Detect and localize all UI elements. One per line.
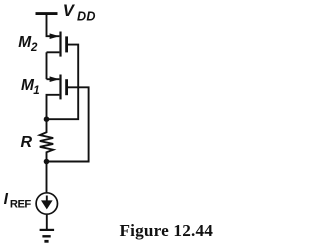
node B junction dot (44, 159, 50, 165)
M1 gate wire to node B (49, 87, 89, 161)
transistor M1 channel bar (59, 75, 61, 100)
wire node B to current source (46, 162, 48, 193)
node A junction dot (44, 116, 50, 122)
svg-text:R: R (21, 134, 33, 151)
svg-text:DD: DD (77, 9, 96, 23)
wire M2 drain to M1 source (47, 51, 60, 53)
M1 source arrowhead (50, 76, 60, 82)
resistor R zigzag (40, 119, 53, 161)
wire current source to ground (46, 215, 48, 229)
ground bar 1 (40, 229, 55, 231)
transistor M2 channel bar (59, 32, 61, 57)
current source arrow shaft (46, 196, 48, 203)
svg-text:1: 1 (33, 85, 39, 97)
transistor M2 gate bar (65, 36, 68, 52)
ground bar 3 (44, 240, 48, 243)
current source IREF circle (36, 193, 57, 214)
M2 gate wire to node A (49, 45, 78, 120)
svg-text:I: I (4, 191, 9, 208)
M2 source arrowhead (50, 33, 60, 39)
current source arrowhead (41, 200, 53, 209)
svg-text:Figure 12.44: Figure 12.44 (120, 221, 214, 240)
wire M1 source horizontal (47, 78, 60, 80)
wire VDD bar to M2 source (47, 14, 60, 37)
svg-text:V: V (63, 1, 76, 20)
VDD supply bar (36, 12, 58, 15)
ground bar 2 (42, 235, 50, 237)
transistor M1 gate bar (65, 79, 68, 95)
svg-text:2: 2 (30, 42, 38, 54)
wire M1 drain to node A (47, 95, 60, 119)
svg-text:REF: REF (10, 198, 32, 210)
